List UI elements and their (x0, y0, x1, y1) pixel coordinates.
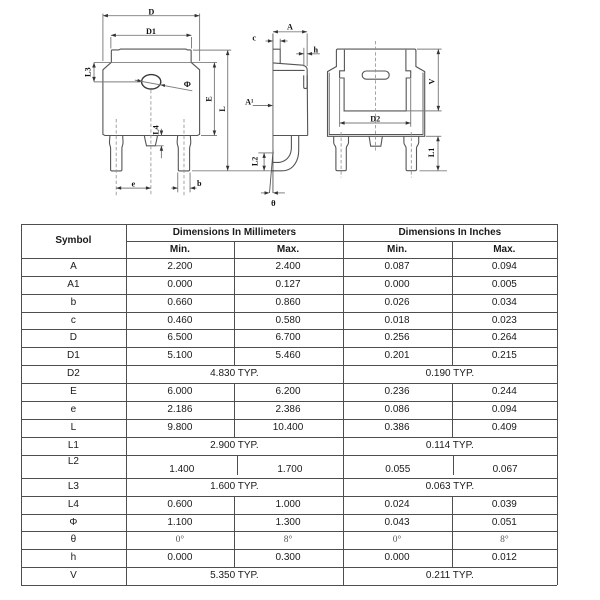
svg-text:h: h (314, 46, 319, 55)
svg-text:D: D (148, 7, 154, 16)
back view: outer outline (328, 49, 425, 136)
hole leader Phi (135, 80, 193, 91)
table vertical borders (21, 224, 22, 585)
dimension D2 (339, 79, 341, 127)
dimension h (303, 48, 305, 67)
centerline middle (150, 90, 152, 196)
back view centerline left (340, 132, 342, 178)
centerline right lead (183, 119, 185, 196)
side view: tab (273, 49, 280, 63)
back view: slot (362, 71, 389, 79)
side view: body (273, 63, 308, 136)
back view: pad contour (340, 50, 411, 111)
svg-text:L1: L1 (427, 148, 436, 158)
dimension A1 (253, 105, 272, 107)
dimension D1 (110, 37, 112, 49)
front view: right lead (177, 136, 191, 171)
svg-text:c: c (252, 33, 256, 42)
front view: center stub (144, 136, 157, 146)
svg-text:Φ: Φ (184, 79, 191, 89)
centerline left lead (115, 119, 117, 196)
svg-text:A: A (287, 23, 293, 32)
svg-text:θ: θ (271, 198, 276, 208)
side view: front face line (272, 34, 274, 194)
side view: back lip (304, 75, 307, 88)
dimension A (273, 31, 307, 33)
dimension L4 (160, 129, 162, 136)
front view: body outline (103, 62, 200, 135)
back view centerline right (410, 132, 412, 178)
dimension E (201, 135, 217, 137)
back view: left lead (334, 136, 349, 170)
back view: center stub (369, 136, 382, 146)
dimension L1 (426, 135, 441, 137)
svg-text:V: V (428, 78, 437, 84)
dimension D (102, 14, 104, 62)
svg-text:L4: L4 (152, 125, 161, 135)
table body (21, 258, 127, 276)
mounting hole (142, 75, 161, 89)
svg-text:E: E (205, 96, 214, 102)
dimension theta (261, 192, 268, 194)
svg-text:A¹: A¹ (245, 98, 254, 107)
svg-text:e: e (131, 180, 135, 189)
front view: tab (111, 49, 191, 62)
svg-text:L: L (218, 106, 227, 112)
back view: right lead (404, 136, 419, 170)
side view: theta slant line (270, 150, 274, 193)
svg-text:L2: L2 (250, 157, 259, 167)
dimension V (417, 48, 442, 50)
svg-text:D1: D1 (146, 27, 156, 36)
svg-text:b: b (197, 179, 202, 188)
dimension e (116, 187, 151, 189)
svg-text:D2: D2 (370, 115, 380, 124)
front view: top edge line with L3/E extensions (94, 61, 217, 63)
L2 row partial dividers (237, 456, 238, 475)
dimension b (177, 173, 179, 193)
dimension L (193, 49, 231, 51)
table header (21, 224, 127, 258)
dimension c (266, 40, 273, 42)
dimension L2 (258, 152, 274, 154)
front view: left lead (109, 136, 123, 171)
svg-text:L3: L3 (83, 67, 92, 77)
table horizontal borders (21, 224, 558, 225)
back view: inner side/bottom line (329, 73, 423, 135)
side view: lead (271, 136, 298, 171)
dimension L3 (93, 62, 95, 81)
back view centerline middle (375, 41, 377, 151)
